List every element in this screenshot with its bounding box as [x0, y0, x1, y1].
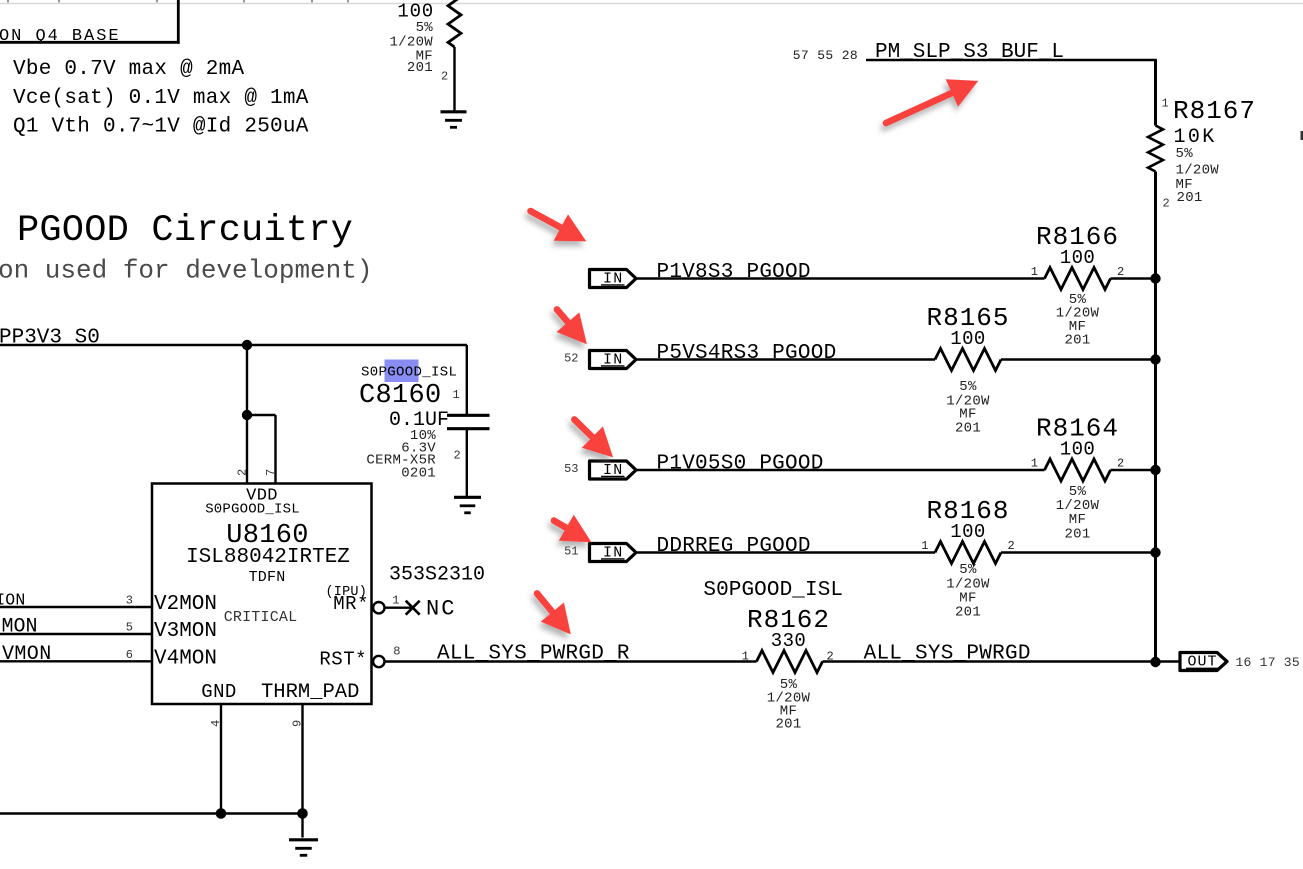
svg-text:TDFN: TDFN	[249, 569, 286, 586]
svg-text:201: 201	[1064, 527, 1090, 543]
svg-text:2: 2	[1008, 539, 1015, 553]
svg-text:201: 201	[775, 717, 801, 733]
svg-text:2: 2	[1117, 457, 1124, 471]
svg-text:ALL_SYS_PWRGD: ALL_SYS_PWRGD	[864, 643, 1031, 666]
svg-text:1: 1	[1031, 457, 1038, 471]
svg-text:Vce(sat) 0.1V max @ 1mA: Vce(sat) 0.1V max @ 1mA	[13, 87, 309, 110]
svg-text:ION: ION	[0, 591, 26, 610]
svg-text:S0PGOOD_ISL: S0PGOOD_ISL	[205, 502, 300, 518]
svg-text:51: 51	[564, 545, 578, 559]
svg-text:NC: NC	[426, 597, 456, 622]
svg-text:7: 7	[264, 469, 278, 476]
svg-text:P1V05S0_PGOOD: P1V05S0_PGOOD	[657, 453, 824, 476]
svg-text:6: 6	[126, 648, 133, 662]
svg-text:ON_Q4_BASE: ON_Q4_BASE	[0, 27, 121, 46]
svg-text:52: 52	[564, 352, 578, 366]
svg-text:2: 2	[1163, 197, 1170, 211]
svg-text:1: 1	[1162, 97, 1169, 111]
svg-text:on used for development): on used for development)	[0, 256, 372, 286]
svg-text:V4MON: V4MON	[154, 648, 217, 671]
svg-text:201: 201	[1177, 190, 1203, 206]
svg-text:P5VS4RS3_PGOOD: P5VS4RS3_PGOOD	[657, 342, 837, 365]
svg-text:1: 1	[392, 593, 399, 607]
svg-text:53: 53	[564, 462, 578, 476]
svg-text:8: 8	[393, 645, 400, 659]
svg-text:S0PGOOD_ISL: S0PGOOD_ISL	[703, 579, 843, 602]
svg-text:201: 201	[955, 605, 981, 621]
svg-text:1: 1	[742, 650, 749, 664]
svg-text:2: 2	[441, 70, 448, 84]
svg-text:ISL88042IRTEZ: ISL88042IRTEZ	[186, 546, 350, 569]
svg-text:5%: 5%	[1176, 146, 1194, 162]
svg-text:Q1 Vth 0.7~1V @Id 250uA: Q1 Vth 0.7~1V @Id 250uA	[13, 116, 309, 139]
svg-text:201: 201	[407, 60, 433, 76]
svg-text:CRITICAL: CRITICAL	[224, 609, 298, 626]
svg-text:Vbe 0.7V max @ 2mA: Vbe 0.7V max @ 2mA	[13, 58, 244, 81]
svg-text:S0PGOOD_ISL: S0PGOOD_ISL	[361, 365, 457, 381]
svg-text:C8160: C8160	[359, 381, 442, 411]
svg-text:1: 1	[1031, 265, 1038, 279]
svg-text:5: 5	[126, 621, 133, 635]
svg-text:201: 201	[1064, 333, 1090, 349]
svg-text:MON: MON	[2, 616, 38, 639]
svg-text:ALL_SYS_PWRGD_R: ALL_SYS_PWRGD_R	[437, 643, 630, 666]
svg-text:GND: GND	[201, 681, 236, 703]
svg-text:201: 201	[955, 421, 981, 437]
svg-text:353S2310: 353S2310	[389, 564, 485, 587]
svg-text:2: 2	[1117, 265, 1124, 279]
svg-text:V3MON: V3MON	[154, 620, 217, 643]
svg-text:100: 100	[950, 521, 985, 543]
svg-text:57 55 28: 57 55 28	[793, 48, 858, 63]
svg-text:P1V8S3_PGOOD: P1V8S3_PGOOD	[657, 261, 811, 284]
svg-text:VMON: VMON	[2, 643, 52, 666]
svg-text:3: 3	[126, 594, 133, 608]
svg-text:RST*: RST*	[319, 649, 367, 671]
svg-text:V2MON: V2MON	[154, 593, 217, 616]
svg-text:0201: 0201	[401, 466, 436, 482]
svg-text:1: 1	[453, 388, 460, 402]
svg-text:330: 330	[771, 630, 806, 652]
svg-text:2: 2	[827, 650, 834, 664]
svg-text:PGOOD Circuitry: PGOOD Circuitry	[17, 210, 353, 252]
svg-text:100: 100	[950, 328, 985, 350]
svg-text:2: 2	[236, 469, 250, 476]
svg-text:R8167: R8167	[1173, 96, 1256, 126]
svg-text:DDRREG_PGOOD: DDRREG_PGOOD	[657, 535, 811, 558]
svg-text:2: 2	[454, 449, 461, 463]
svg-text:THRM_PAD: THRM_PAD	[261, 681, 359, 704]
svg-text:MR*: MR*	[333, 593, 369, 615]
svg-text:100: 100	[1060, 247, 1095, 269]
svg-text:16 17 35: 16 17 35	[1236, 655, 1300, 670]
svg-text:100: 100	[1060, 439, 1095, 461]
svg-text:1: 1	[921, 539, 928, 553]
